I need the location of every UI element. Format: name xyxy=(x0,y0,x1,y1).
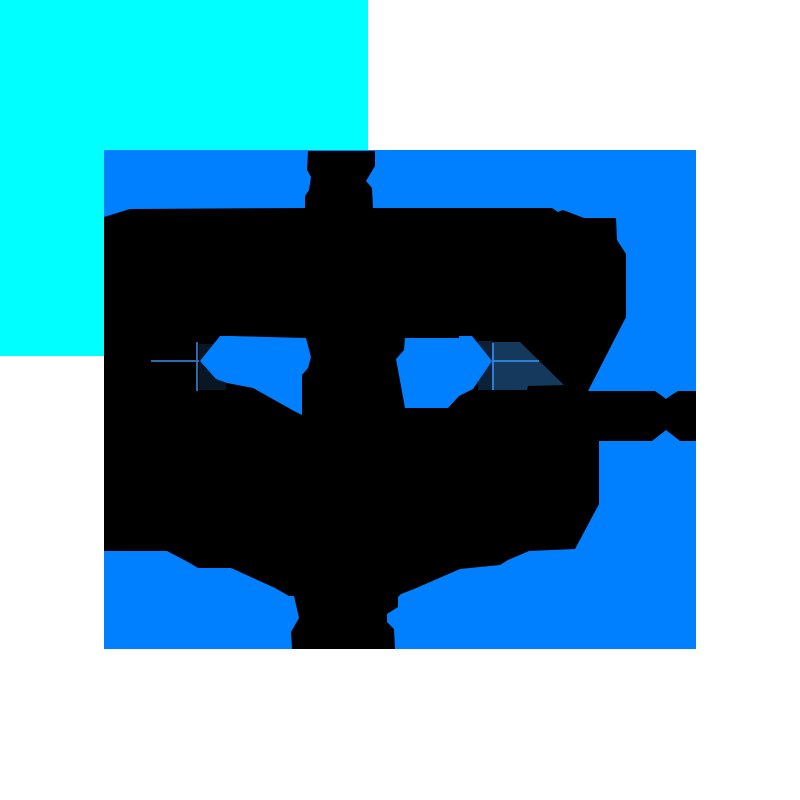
dark navy rect left of divider xyxy=(478,341,493,390)
black bowtie top xyxy=(305,151,375,208)
dark navy square at crosshair xyxy=(199,344,226,390)
crosshair left vertical line xyxy=(196,342,198,391)
cyan square xyxy=(0,0,368,356)
blue arrow left with wing xyxy=(200,336,311,415)
black blob xyxy=(104,208,696,649)
blue panel xyxy=(104,150,696,649)
crosshair right vertical line xyxy=(492,343,494,390)
crosshair left horizontal line xyxy=(151,360,199,362)
crosshair right horizontal line xyxy=(492,360,539,362)
blue pentagon arrow xyxy=(396,336,492,408)
light navy trapezoid xyxy=(493,342,564,390)
